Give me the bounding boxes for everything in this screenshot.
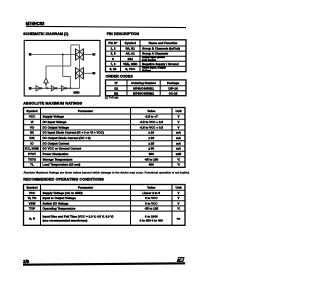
svg-text:500: 500 — [149, 152, 154, 156]
svg-text:DC Output Diode Current (VO <: DC Output Diode Current (VO < 0) — [43, 136, 91, 140]
svg-text:Group A Channels: Group A Channels — [142, 52, 168, 56]
wire: bottom control chain — [31, 87, 79, 89]
pin description table — [106, 40, 187, 72]
svg-text:Power Dissipation: Power Dissipation — [43, 152, 69, 156]
svg-text:Input or Output Voltage: Input or Output Voltage — [43, 196, 77, 200]
svg-text:mA: mA — [176, 141, 182, 145]
svg-text:0 to VCC: 0 to VCC — [145, 201, 158, 205]
svg-text:mA: mA — [176, 131, 182, 135]
transmission gate TG2 — [76, 68, 84, 79]
svg-text:VI, VO: VI, VO — [28, 196, 38, 200]
svg-text:300: 300 — [149, 163, 154, 167]
svg-text:(1) T+R opt.: (1) T+R opt. — [105, 96, 119, 100]
inverter U2 — [51, 86, 55, 91]
wire: mid link y76.4 — [63, 75, 71, 77]
svg-text:DC Input Diode Current (VI < 0: DC Input Diode Current (VI < 0 or VI > V… — [43, 131, 104, 135]
svg-text:VO: VO — [30, 125, 35, 129]
svg-text:Parameter: Parameter — [78, 109, 94, 113]
svg-text:Name and Function: Name and Function — [149, 41, 178, 45]
svg-text:Symbol: Symbol — [26, 186, 37, 190]
svg-text:Absolute Maximum Ratings are t: Absolute Maximum Ratings are those value… — [24, 170, 191, 174]
svg-text:Group B Channels (In/Out): Group B Channels (In/Out) — [142, 47, 180, 51]
svg-text:Supply Voltage: Supply Voltage — [43, 115, 65, 119]
output terminal 2 — [92, 72, 95, 74]
svg-text:0 to 500 0 to 400: 0 to 500 0 to 400 — [140, 218, 164, 222]
wire: top gate link y44.9 — [71, 44, 80, 46]
transmission gate TG1 — [76, 49, 84, 60]
svg-text:TL: TL — [30, 163, 34, 167]
schematic frame box — [24, 40, 100, 96]
svg-text:Supply Voltage (ref. to GND): Supply Voltage (ref. to GND) — [43, 191, 83, 195]
svg-text:-0.5 to VCC + 0.5: -0.5 to VCC + 0.5 — [139, 120, 163, 124]
svg-text:Value: Value — [147, 186, 155, 190]
svg-text:DC Output Current: DC Output Current — [43, 141, 70, 145]
wire: TG2 output — [83, 72, 92, 74]
svg-text:M74HC4053M1: M74HC4053M1 — [133, 91, 154, 95]
svg-text:ABSOLUTE MAXIMUM RATINGS: ABSOLUTE MAXIMUM RATINGS — [23, 102, 82, 106]
svg-text:Unit: Unit — [175, 109, 181, 113]
svg-text:V: V — [177, 191, 179, 195]
svg-text:VI: VI — [31, 120, 34, 124]
svg-text:0 to VCC: 0 to VCC — [145, 196, 158, 200]
svg-text:± 20: ± 20 — [148, 131, 154, 135]
svg-text:VEE, GND: VEE, GND — [123, 62, 138, 66]
svg-text:VSW: VSW — [29, 201, 36, 205]
recommended operating conditions table — [24, 185, 186, 226]
svg-text:2/8: 2/8 — [23, 259, 30, 264]
svg-text:V: V — [177, 115, 179, 119]
svg-text:SCHEMATIC DIAGRAM (1): SCHEMATIC DIAGRAM (1) — [23, 32, 69, 36]
svg-text:Voltage: Voltage — [142, 69, 151, 72]
svg-text:PIN DESCRIPTION: PIN DESCRIPTION — [107, 32, 140, 36]
svg-text:Switch I/O Voltage: Switch I/O Voltage — [43, 201, 69, 205]
wire: U4 input stub — [45, 85, 47, 89]
svg-text:TOP: TOP — [29, 207, 35, 211]
svg-text:INH: INH — [128, 57, 133, 61]
inverter U1 — [36, 86, 40, 91]
svg-text:IOK: IOK — [29, 136, 35, 140]
svg-text:M74HC4053B1: M74HC4053B1 — [133, 86, 154, 90]
control input terminal C — [29, 87, 32, 90]
svg-text:± 20: ± 20 — [148, 136, 154, 140]
svg-text:VCC: VCC — [29, 115, 36, 119]
svg-text:-0.5 to VCC + 0.5: -0.5 to VCC + 0.5 — [139, 125, 163, 129]
svg-text:B1: B1 — [114, 86, 118, 90]
svg-text:± 25: ± 25 — [148, 141, 154, 145]
svg-text:mA: mA — [176, 147, 182, 151]
svg-text:mA: mA — [176, 136, 182, 140]
svg-text:Pin N°: Pin N° — [108, 41, 118, 45]
svg-text:Unit: Unit — [175, 186, 181, 190]
inverter U3 — [61, 86, 65, 91]
inverter U4 (points up) — [44, 78, 49, 83]
svg-text:V: V — [177, 125, 179, 129]
svg-text:ORDER CODES: ORDER CODES — [106, 75, 134, 79]
svg-text:DC VCC or Ground Current: DC VCC or Ground Current — [43, 147, 82, 151]
wire: x70.3 drop to bottom wire — [69, 76, 71, 88]
svg-text:mW: mW — [176, 152, 182, 156]
svg-text:M74HC53: M74HC53 — [26, 21, 45, 26]
node N3 — [47, 87, 49, 89]
svg-text:Value: Value — [147, 109, 155, 113]
svg-text:DIP-16: DIP-16 — [168, 86, 178, 90]
svg-text:SO-16: SO-16 — [169, 91, 178, 95]
svg-text:S, VCC: S, VCC — [125, 67, 136, 71]
header rule — [26, 26, 186, 27]
wire: node N1 down — [62, 55, 64, 77]
svg-text:Linear 2 to 6: Linear 2 to 6 — [142, 191, 160, 195]
svg-text:VCC: VCC — [29, 191, 36, 195]
svg-text:ns: ns — [177, 216, 181, 220]
svg-text:M1: M1 — [114, 91, 118, 95]
svg-text:-65 to 150: -65 to 150 — [144, 157, 158, 161]
svg-text:A0, A1: A0, A1 — [126, 52, 136, 56]
svg-text:V: V — [177, 201, 179, 205]
svg-text:Symbol: Symbol — [125, 41, 136, 45]
svg-text:GND: GND — [73, 91, 79, 95]
footer rule — [23, 263, 185, 264]
svg-text:RECOMMENDED OPERATING CONDITIO: RECOMMENDED OPERATING CONDITIONS — [23, 177, 104, 181]
node N1 (junction on input wire) — [62, 54, 64, 56]
svg-text:tr, tf: tr, tf — [29, 216, 35, 220]
svg-text:PTOT: PTOT — [28, 152, 36, 156]
svg-text:Lead Temperature (10 sec): Lead Temperature (10 sec) — [43, 163, 81, 167]
svg-text:Operating Temperature: Operating Temperature — [43, 207, 76, 211]
svg-text:-55 to 125: -55 to 125 — [144, 207, 158, 211]
wire: horizontal control bus y66 — [46, 65, 71, 67]
output terminal 1 — [92, 53, 95, 55]
wire: TG spine x79.5 — [79, 45, 81, 88]
svg-text:ICC, IGND: ICC, IGND — [25, 147, 40, 151]
wire: input B to TG1 — [31, 54, 75, 56]
svg-text:V: V — [177, 120, 179, 124]
wire: TG1 output — [83, 54, 92, 56]
svg-text:TSTG: TSTG — [28, 157, 37, 161]
svg-text:Ordering Number: Ordering Number — [131, 81, 157, 85]
svg-text:9, 16: 9, 16 — [110, 67, 117, 71]
svg-text:DC Output Voltage: DC Output Voltage — [43, 125, 70, 129]
input terminal B (analog in) — [29, 53, 32, 56]
svg-text:V: V — [177, 196, 179, 200]
svg-text:-0.5 to +7: -0.5 to +7 — [145, 115, 158, 119]
svg-text:Package: Package — [167, 81, 180, 85]
svg-text:(see recommended waveforms): (see recommended waveforms) — [43, 218, 88, 222]
ST logo — [177, 257, 185, 262]
svg-text:Negative Supply / Ground: Negative Supply / Ground — [142, 62, 179, 66]
svg-text:± 50: ± 50 — [148, 147, 154, 151]
svg-text:Symbol: Symbol — [26, 109, 37, 113]
order codes table — [106, 80, 187, 96]
wire: left gate drop x70.8 — [70, 45, 72, 66]
node N2 (junction bottom wire) — [69, 87, 71, 89]
svg-text:1, 2: 1, 2 — [110, 47, 115, 51]
svg-text:DC Input Voltage: DC Input Voltage — [43, 120, 67, 124]
svg-text:7, 8: 7, 8 — [110, 62, 115, 66]
svg-text:Storage Temperature: Storage Temperature — [43, 157, 73, 161]
svg-text:Parameter: Parameter — [78, 186, 94, 190]
svg-text:3, 5: 3, 5 — [110, 52, 115, 56]
svg-text:B0, B1: B0, B1 — [126, 47, 136, 51]
wire: control bus to inverter U4 output — [45, 66, 47, 77]
absolute maximum ratings table — [24, 108, 186, 168]
